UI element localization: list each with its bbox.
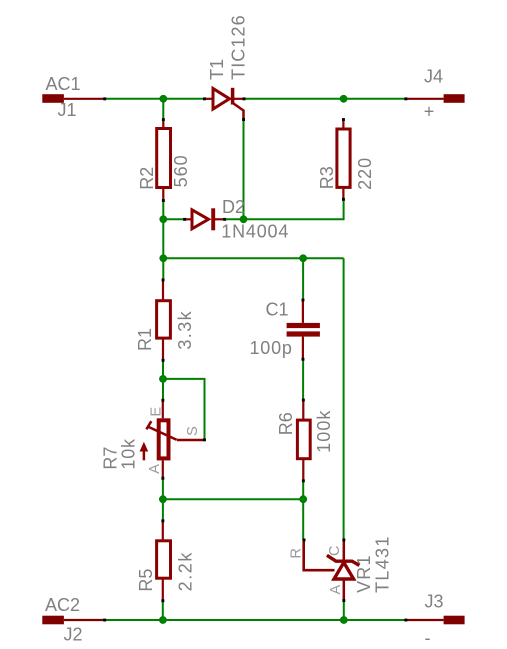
label 100p xyxy=(250,338,293,358)
shunt regulator VR1 TL431 xyxy=(304,541,360,601)
label J4 xyxy=(424,67,443,87)
pin label A of R7 xyxy=(147,464,163,474)
wire R5 bottom lead xyxy=(162,601,164,620)
resistor R6 xyxy=(297,401,310,481)
label R2 xyxy=(137,167,157,190)
junction top rail at R3 xyxy=(340,95,348,103)
pin dot R2 top xyxy=(162,118,165,121)
connector AC2 J2 pad xyxy=(42,616,104,625)
svg-text:3.3k: 3.3k xyxy=(175,310,195,350)
svg-text:R3: R3 xyxy=(317,166,337,189)
capacitor C1 xyxy=(287,301,320,359)
label R1 xyxy=(135,328,155,351)
label TL431 xyxy=(373,535,393,593)
pin dot R6 bottom xyxy=(302,479,305,482)
wire R1 bottom to R7 top xyxy=(162,361,164,401)
svg-text:A: A xyxy=(328,585,344,595)
svg-text:100p: 100p xyxy=(250,338,293,358)
svg-text:AC2: AC2 xyxy=(45,595,80,615)
svg-text:S: S xyxy=(185,426,201,436)
junction wiper row at left column xyxy=(159,375,167,383)
pin dot R3 top xyxy=(342,118,345,121)
svg-text:J2: J2 xyxy=(64,624,83,644)
label C1 xyxy=(266,300,289,320)
wire bottom rail (AC2 to J3) xyxy=(104,619,406,621)
wire C1 bottom to R6 top xyxy=(302,359,304,400)
pin label R of VR1 xyxy=(288,548,304,558)
pin dot D2 cathode xyxy=(223,218,226,221)
pin dot R6 top xyxy=(302,399,305,402)
diode D2 xyxy=(185,208,224,230)
svg-text:E: E xyxy=(148,407,164,417)
junction D2 row at left column xyxy=(159,215,167,223)
wire R7 wiper loop xyxy=(163,379,205,440)
svg-text:VR1: VR1 xyxy=(354,554,374,593)
svg-text:1N4004: 1N4004 xyxy=(221,221,289,241)
pin dot D2 anode xyxy=(183,218,186,221)
resistor R2 xyxy=(157,119,171,200)
label D2 xyxy=(222,197,245,217)
label R7 xyxy=(101,447,121,470)
wire row y=499 to R6 bottom xyxy=(163,498,303,500)
pin dot T1 gate xyxy=(242,118,245,121)
pin dot R5 top xyxy=(161,519,164,522)
wire T1 gate down to D2 row xyxy=(243,121,245,220)
wire D2 row left segment xyxy=(163,218,184,220)
svg-text:R2: R2 xyxy=(137,167,157,190)
wire D2 row right segment to R3 bottom corner xyxy=(225,200,344,220)
pin label C of VR1 xyxy=(327,546,343,556)
wire C1 top lead xyxy=(302,258,304,300)
label 10k xyxy=(118,438,138,470)
svg-text:TIC126: TIC126 xyxy=(229,14,249,80)
connector J4 pad xyxy=(407,94,465,103)
pin label S xyxy=(185,426,201,436)
connector AC1 J1 pad xyxy=(42,94,104,103)
svg-text:AC1: AC1 xyxy=(46,74,81,94)
potentiometer R7 xyxy=(140,401,204,478)
svg-text:J1: J1 xyxy=(58,100,77,120)
pin dot R1 top xyxy=(162,279,165,282)
label 1N4004 xyxy=(221,221,289,241)
pin dot T1 anode xyxy=(203,97,206,100)
resistor R5 xyxy=(157,522,171,601)
svg-text:-: - xyxy=(425,628,431,648)
svg-text:TL431: TL431 xyxy=(373,535,393,593)
label 220 xyxy=(355,157,375,190)
svg-text:2.2k: 2.2k xyxy=(175,551,195,591)
label 100k xyxy=(314,409,334,452)
pin dot AC1 xyxy=(103,97,106,100)
label 3.3k xyxy=(175,310,195,350)
svg-text:R6: R6 xyxy=(276,412,296,435)
label TIC126 xyxy=(229,14,249,80)
junction row258 at left column xyxy=(159,254,167,262)
pin dot J3 xyxy=(404,619,407,622)
svg-text:220: 220 xyxy=(355,157,375,190)
svg-text:R5: R5 xyxy=(136,569,156,592)
svg-text:+: + xyxy=(424,102,435,122)
wire mid row y=258 xyxy=(163,257,343,259)
pin dot VR1 anode xyxy=(342,599,345,602)
label 560 xyxy=(171,154,191,187)
thyristor T1 xyxy=(206,88,244,119)
pin dot J4 xyxy=(404,97,407,100)
wire top rail left (AC1 to T1 anode) xyxy=(104,98,204,100)
label R3 xyxy=(317,166,337,189)
label plus xyxy=(424,102,435,122)
svg-text:C1: C1 xyxy=(266,300,289,320)
wire R2 top lead xyxy=(162,99,164,119)
label AC1 xyxy=(46,74,81,94)
resistor R1 xyxy=(157,281,171,361)
pin label A of VR1 xyxy=(328,585,344,595)
label VR1 xyxy=(354,554,374,593)
resistor R3 xyxy=(337,120,350,200)
svg-text:A: A xyxy=(147,464,163,474)
svg-text:100k: 100k xyxy=(314,409,334,452)
pin dot R7 E xyxy=(161,399,164,402)
pin dot R7 S xyxy=(203,438,206,441)
svg-text:D2: D2 xyxy=(222,197,245,217)
svg-text:R1: R1 xyxy=(135,328,155,351)
junction bottom rail at VR1 xyxy=(340,616,348,624)
wire top rail right (T1 cathode to J4) xyxy=(245,98,407,100)
junction row499 at R6 xyxy=(299,495,307,503)
wire R2 bottom to R1 top (left column) xyxy=(162,201,164,279)
wire right column down to VR1 cathode xyxy=(343,258,345,540)
svg-text:560: 560 xyxy=(171,154,191,187)
junction D2 row at gate xyxy=(240,215,248,223)
wire R6 bottom down to VR1 ref pin xyxy=(302,481,304,540)
junction row258 at C1 xyxy=(299,254,307,262)
label 2.2k xyxy=(175,551,195,591)
pin dot VR1 cathode xyxy=(342,539,345,542)
pin dot R7 A xyxy=(161,477,164,480)
label AC2 xyxy=(45,595,80,615)
label R6 xyxy=(276,412,296,435)
junction row499 at left column xyxy=(159,495,167,503)
label J1 xyxy=(58,100,77,120)
junction bottom rail at R5 xyxy=(159,616,167,624)
pin dot R5 bottom xyxy=(161,599,164,602)
pin dot R3 bottom xyxy=(342,198,345,201)
wire VR1 anode lead xyxy=(343,601,345,620)
pin dot C1 bottom xyxy=(302,358,305,361)
svg-text:J4: J4 xyxy=(424,67,443,87)
svg-text:10k: 10k xyxy=(118,438,138,470)
svg-text:C: C xyxy=(327,546,343,556)
pin label E xyxy=(148,407,164,417)
pin dot C1 top xyxy=(302,299,305,302)
pin dot T1 cathode xyxy=(243,97,246,100)
label J2 xyxy=(64,624,83,644)
svg-text:J3: J3 xyxy=(425,592,444,612)
label J3 xyxy=(425,592,444,612)
label T1 xyxy=(207,59,227,80)
pin dot VR1 ref xyxy=(303,539,306,542)
pin dot R2 bottom xyxy=(162,199,165,202)
label minus xyxy=(425,628,431,648)
junction top rail at R2 xyxy=(159,95,167,103)
svg-text:R: R xyxy=(288,548,304,558)
label R5 xyxy=(136,569,156,592)
pin dot AC2 xyxy=(103,619,106,622)
connector J3 pad xyxy=(407,616,465,625)
pin dot R1 bottom xyxy=(162,359,165,362)
wire R7 bottom to R5 top xyxy=(162,479,164,521)
svg-text:T1: T1 xyxy=(207,59,227,80)
